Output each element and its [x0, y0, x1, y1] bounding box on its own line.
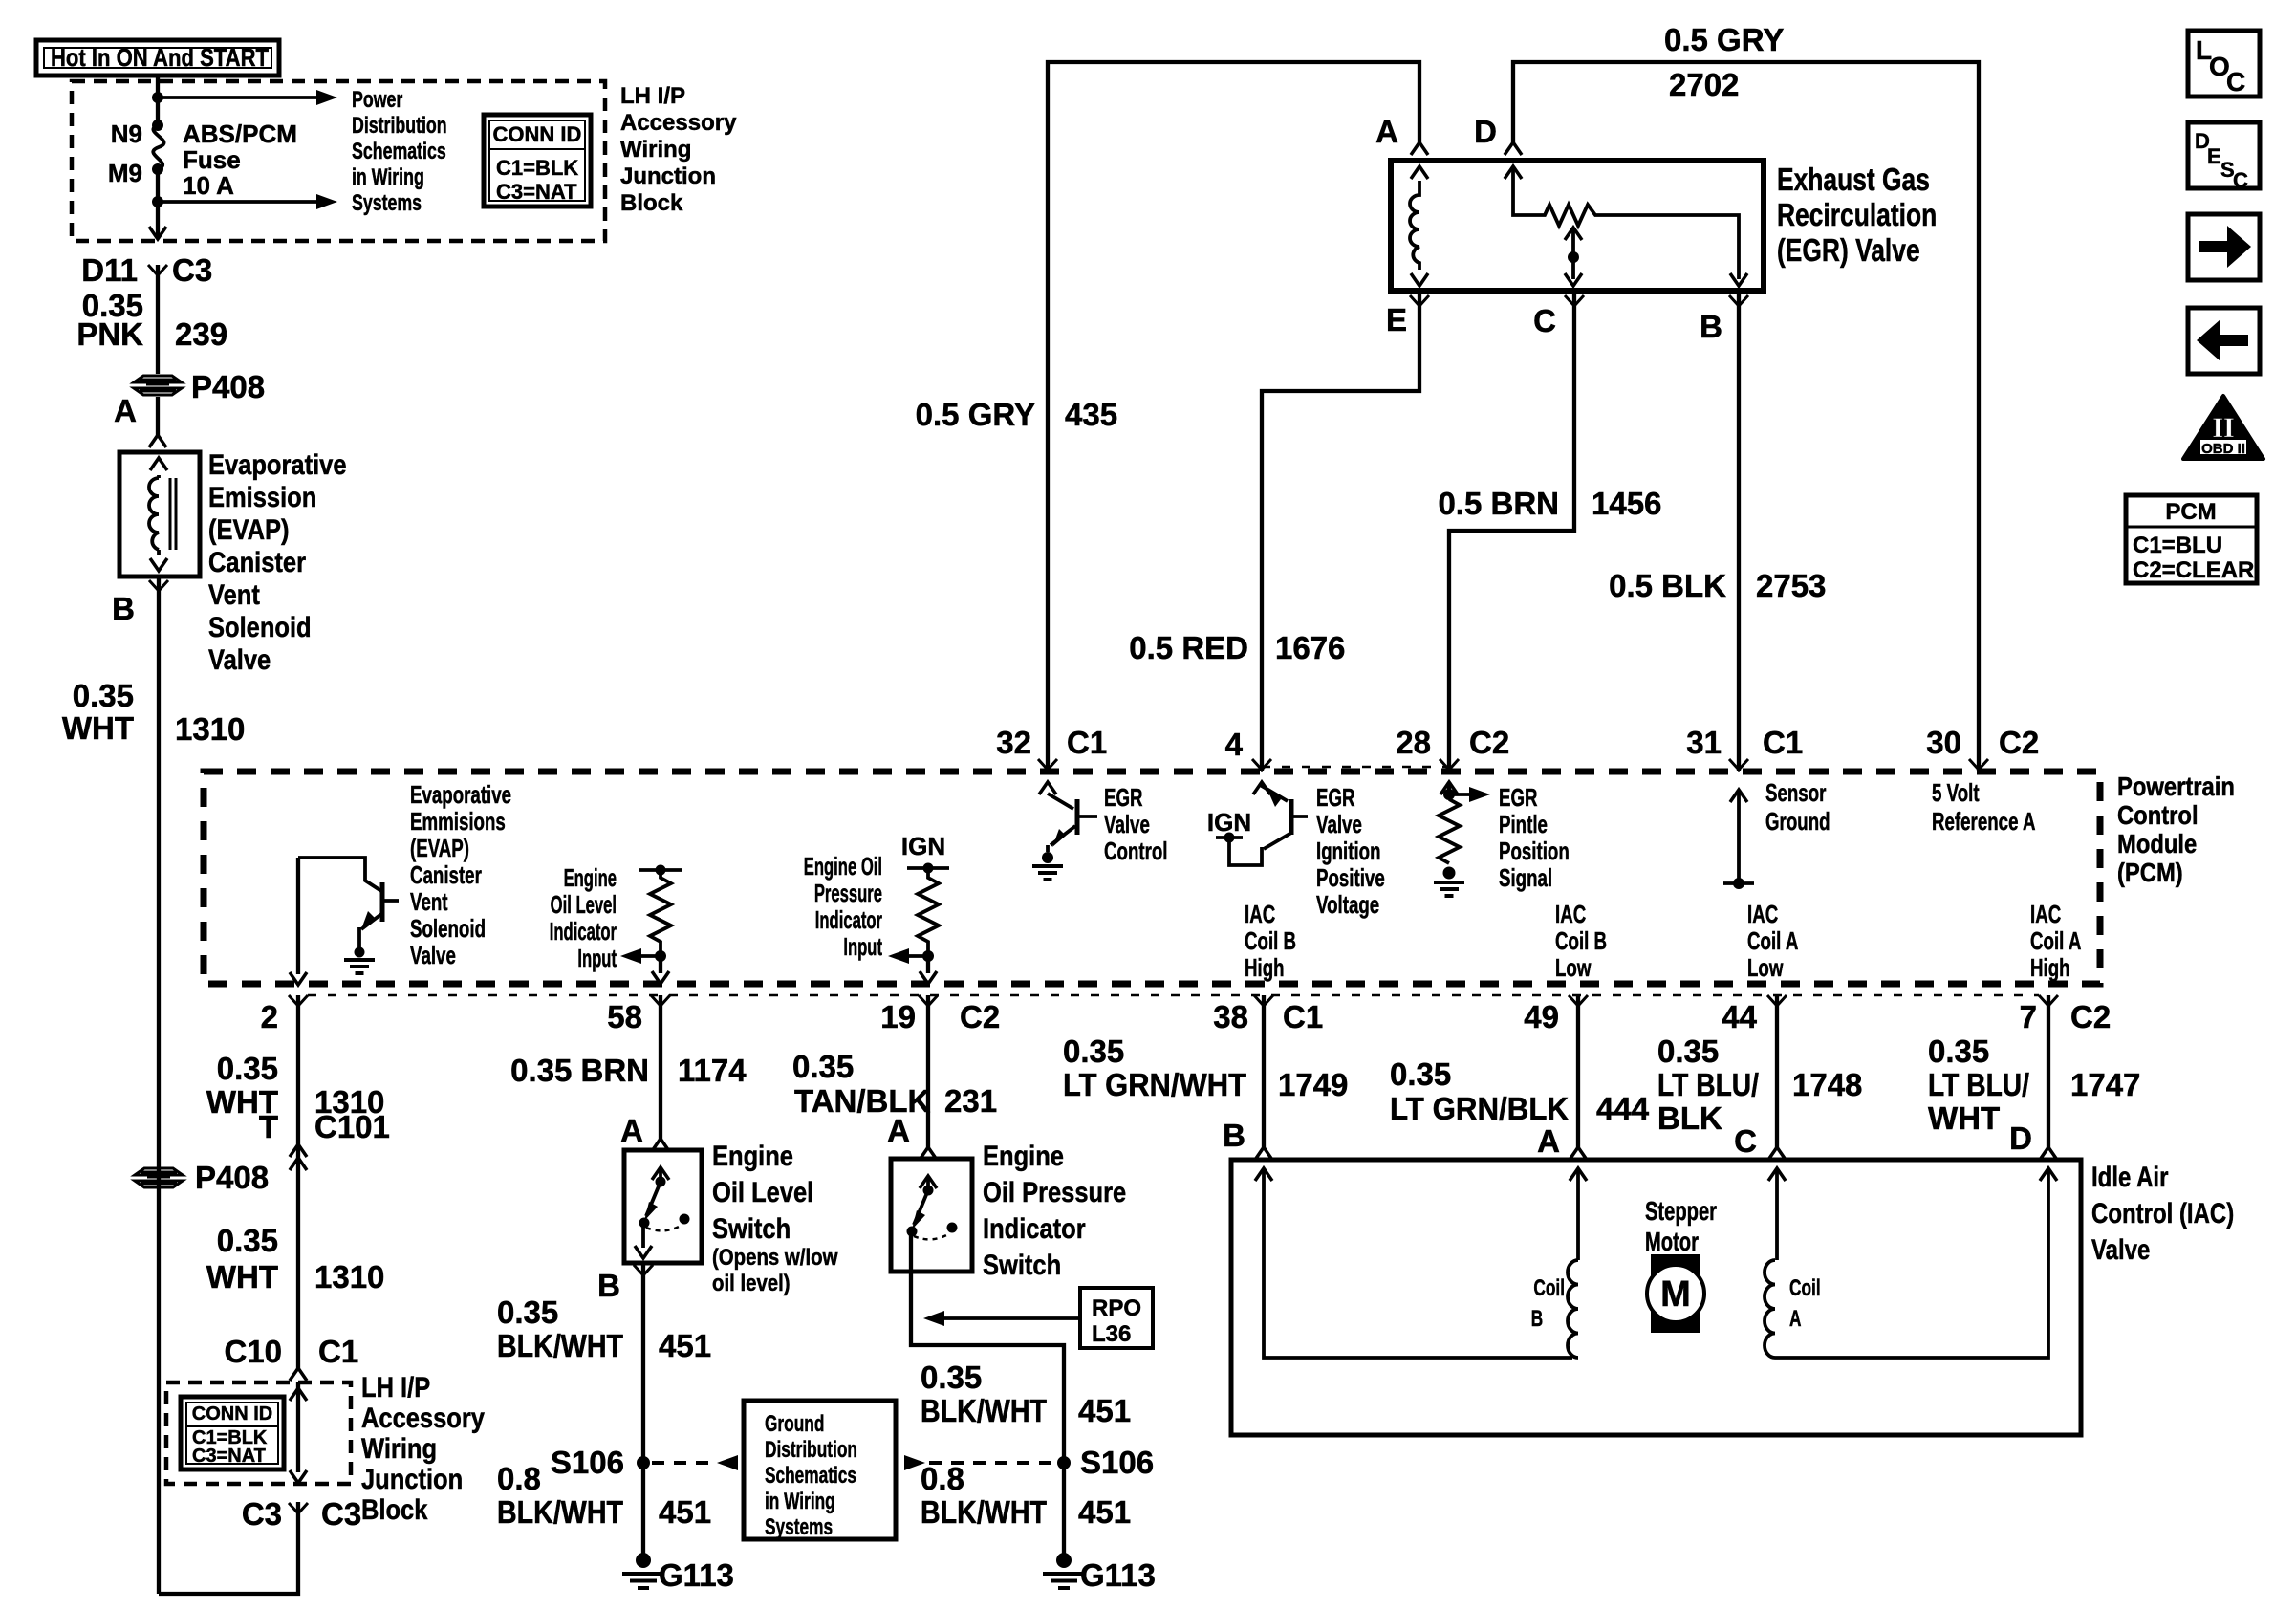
svg-text:Exhaust Gas: Exhaust Gas [1777, 163, 1930, 197]
svg-text:Valve: Valve [208, 643, 271, 675]
svg-text:LH I/P: LH I/P [361, 1371, 430, 1403]
wire 1310 pin 2 down to junction block [296, 995, 300, 1368]
svg-text:IAC: IAC [1555, 900, 1586, 928]
svg-text:A: A [1789, 1306, 1801, 1331]
pin 30 C2 [1926, 725, 2039, 770]
RPO L36 box [1080, 1288, 1153, 1348]
wire 451 oil pressure switch to S106 [911, 1231, 1064, 1556]
pin 44 [1722, 995, 1787, 1034]
label Powertrain Control Module (PCM) [2117, 771, 2235, 887]
svg-text:LT GRN/BLK: LT GRN/BLK [1390, 1091, 1569, 1126]
pin C IAC [1734, 1123, 1786, 1160]
svg-text:30: 30 [1926, 725, 1961, 760]
svg-text:2702: 2702 [1669, 67, 1739, 102]
svg-text:IAC: IAC [1747, 900, 1778, 928]
svg-text:G113: G113 [659, 1557, 734, 1593]
svg-text:D: D [1474, 114, 1497, 149]
svg-text:38: 38 [1213, 999, 1248, 1034]
svg-text:B: B [112, 591, 135, 626]
svg-text:E: E [1386, 302, 1407, 337]
svg-text:C2=CLEAR: C2=CLEAR [2133, 557, 2254, 583]
pin B IAC [1223, 1118, 1272, 1160]
label LH I/P Accessory Wiring Junction Block (bottom) [361, 1371, 485, 1525]
transistor EVAP vent solenoid driver [290, 858, 399, 985]
wire 1174 pin 58 to oil level switch A [659, 995, 662, 1139]
power feed box "Hot In ON And START" [36, 40, 279, 76]
svg-text:Emmisions: Emmisions [410, 807, 506, 836]
wire 435 pin32 to EGR A [1048, 62, 1419, 771]
svg-text:0.35: 0.35 [217, 1223, 278, 1258]
pin 32 C1 [996, 725, 1107, 770]
splice S106 (right) [1057, 1445, 1154, 1480]
svg-text:Junction: Junction [361, 1463, 463, 1494]
connector thin dashed line bottom [308, 994, 2039, 997]
svg-text:Control: Control [2117, 799, 2199, 830]
coil B [1531, 1260, 1578, 1358]
svg-text:TAN/BLK: TAN/BLK [794, 1083, 931, 1119]
svg-text:PCM: PCM [2165, 499, 2216, 525]
connector C3 C3 [242, 1496, 361, 1532]
node junction below fuse [152, 196, 163, 207]
pin D IAC [2009, 1120, 2057, 1160]
oil level switch contacts [635, 1167, 690, 1258]
svg-text:A: A [1537, 1123, 1560, 1159]
svg-text:Emission: Emission [208, 481, 316, 512]
transistor EGR valve ignition feed [1207, 782, 1308, 865]
fuse block dashed box [72, 81, 605, 241]
svg-text:C2: C2 [1469, 725, 1509, 760]
svg-text:Oil Level: Oil Level [551, 890, 617, 919]
svg-text:1747: 1747 [2070, 1067, 2140, 1102]
svg-text:(EGR) Valve: (EGR) Valve [1777, 233, 1920, 268]
svg-text:L36: L36 [1092, 1321, 1131, 1347]
svg-text:0.35: 0.35 [217, 1051, 278, 1086]
svg-text:B: B [1531, 1306, 1543, 1331]
svg-text:0.35: 0.35 [1390, 1056, 1451, 1092]
wire label 0.8 BLK/WHT 451 (left) [497, 1461, 711, 1530]
wire 451 oil level switch B to S106 [641, 1265, 645, 1556]
wire 1676 EGR E to pin 4 [1262, 292, 1419, 771]
svg-text:BLK/WHT: BLK/WHT [921, 1494, 1047, 1530]
svg-text:0.5 BLK: 0.5 BLK [1609, 568, 1726, 603]
svg-text:Fuse: Fuse [183, 145, 241, 174]
svg-text:Low: Low [1555, 953, 1592, 982]
svg-text:WHT: WHT [1928, 1100, 2000, 1136]
resistor engine oil level input [620, 865, 682, 985]
pin A IAC [1537, 1123, 1587, 1160]
svg-text:0.35: 0.35 [921, 1360, 982, 1395]
wire arrow to Power Distribution (top) [158, 90, 337, 105]
label Evaporative Emmisions (EVAP) Canister Vent Solenoid Valve [410, 780, 511, 969]
svg-text:7: 7 [2020, 999, 2037, 1034]
wire label 0.35 BLK/WHT 451 (left) [497, 1295, 711, 1363]
wire through junction block [290, 1382, 307, 1483]
wire label 0.35 WHT 1310 [62, 678, 246, 747]
svg-text:Valve: Valve [1316, 810, 1362, 838]
svg-text:BLK: BLK [1657, 1100, 1722, 1136]
svg-text:C3: C3 [242, 1496, 282, 1532]
svg-text:WHT: WHT [62, 710, 134, 746]
sensor ground symbol [1723, 790, 1754, 889]
label Engine Oil Pressure Indicator Switch [983, 1140, 1126, 1280]
svg-text:Input: Input [843, 932, 882, 961]
wire to P408 [156, 265, 160, 374]
svg-text:Solenoid: Solenoid [208, 611, 312, 642]
svg-text:Schematics: Schematics [765, 1463, 856, 1488]
svg-text:Vent: Vent [410, 887, 448, 916]
wire leaving fuse block down with arrowhead [149, 202, 166, 239]
label IAC Coil A Low [1747, 900, 1798, 982]
svg-text:A: A [887, 1113, 910, 1148]
svg-text:Reference A: Reference A [1932, 807, 2035, 836]
svg-text:S106: S106 [1080, 1445, 1154, 1480]
svg-text:G113: G113 [1080, 1557, 1156, 1593]
svg-text:Powertrain: Powertrain [2117, 771, 2235, 801]
pin 19 C2 [880, 995, 1000, 1034]
wire 1310 from EVAP B down left side [157, 577, 161, 1594]
wire label 0.35 LT BLU/BLK 1748 [1657, 1033, 1862, 1136]
wire 2702 EGR D to pin 30 [1513, 62, 1979, 771]
svg-text:0.35: 0.35 [497, 1295, 558, 1330]
svg-text:OBD II: OBD II [2201, 441, 2245, 457]
svg-text:0.5 GRY: 0.5 GRY [1664, 22, 1784, 57]
svg-text:C: C [1734, 1123, 1757, 1159]
IAC coil A return wire [1775, 1168, 2057, 1358]
svg-text:Canister: Canister [208, 546, 306, 577]
svg-text:Control: Control [1104, 837, 1168, 865]
pin D11/C3 chevron [148, 265, 167, 275]
wire label 0.5 BRN 1456 [1438, 486, 1661, 521]
svg-text:Oil Level: Oil Level [712, 1176, 813, 1207]
IAC coil B feed wire [1255, 1168, 1572, 1358]
svg-text:IGN: IGN [901, 832, 945, 860]
svg-text:1749: 1749 [1278, 1067, 1348, 1102]
svg-text:EGR: EGR [1104, 783, 1143, 812]
pin B oil level switch [597, 1265, 653, 1303]
svg-text:239: 239 [175, 316, 227, 352]
connector C101 T [259, 1109, 390, 1170]
icon DESC box [2188, 122, 2260, 192]
svg-text:451: 451 [1078, 1393, 1131, 1428]
wire label 0.35 BLK/WHT 451 (right) [921, 1360, 1131, 1428]
wire label 0.35 BRN 1174 [510, 1053, 747, 1088]
label LH I/P Accessory Wiring Junction Block (top) [620, 83, 737, 216]
svg-text:C3: C3 [321, 1496, 361, 1532]
svg-text:in Wiring: in Wiring [765, 1489, 835, 1513]
svg-text:Solenoid: Solenoid [410, 914, 486, 943]
PCM connector legend box [2126, 495, 2257, 583]
svg-text:32: 32 [996, 725, 1031, 760]
icon OBD II triangle [2183, 396, 2264, 459]
connector C10 C1 [224, 1334, 358, 1381]
ground G113 (left) [622, 1553, 734, 1593]
wire label 0.35 LT GRN/BLK 444 [1390, 1056, 1650, 1126]
wire label 0.35 TAN/BLK 231 [792, 1049, 997, 1119]
resistor engine oil pressure input with IGN rail [888, 832, 949, 984]
svg-text:0.5 RED: 0.5 RED [1129, 630, 1248, 665]
svg-text:Schematics: Schematics [352, 140, 446, 164]
wire 1749 pin 38 to IAC B [1262, 995, 1266, 1147]
svg-text:2753: 2753 [1756, 568, 1826, 603]
svg-text:High: High [2030, 953, 2070, 982]
engine oil pressure indicator switch box [891, 1159, 972, 1272]
svg-text:0.35: 0.35 [73, 678, 134, 713]
EGR pin A [1375, 114, 1428, 155]
EGR pin B [1700, 295, 1748, 344]
svg-text:C: C [1533, 303, 1556, 338]
svg-text:D11: D11 [81, 252, 138, 288]
transistor EGR valve control driver [1032, 782, 1097, 880]
svg-text:IAC: IAC [2030, 900, 2061, 928]
svg-text:(EVAP): (EVAP) [410, 834, 469, 862]
label Evaporative Emission (EVAP) Canister Vent Solenoid Valve [208, 448, 347, 675]
label IAC Coil A High [2030, 900, 2081, 982]
svg-text:44: 44 [1722, 999, 1757, 1034]
svg-text:58: 58 [607, 999, 642, 1034]
svg-text:Junction: Junction [620, 163, 716, 189]
svg-text:Pintle: Pintle [1499, 810, 1548, 838]
svg-text:Block: Block [620, 190, 683, 216]
svg-text:Vent: Vent [208, 578, 260, 610]
ground G113 (right) [1043, 1553, 1156, 1593]
svg-text:LT BLU/: LT BLU/ [1657, 1067, 1759, 1102]
svg-text:Stepper: Stepper [1645, 1197, 1717, 1227]
svg-text:T: T [259, 1109, 278, 1144]
pin 49 [1524, 995, 1588, 1034]
svg-text:Power: Power [352, 88, 402, 113]
svg-text:C2: C2 [2070, 999, 2111, 1034]
svg-text:S106: S106 [551, 1445, 624, 1480]
svg-text:Accessory: Accessory [620, 110, 737, 136]
svg-text:Ground: Ground [1765, 807, 1830, 836]
svg-text:Switch: Switch [983, 1249, 1061, 1280]
svg-text:Evaporative: Evaporative [208, 448, 347, 480]
junction block dashed box [166, 1382, 351, 1484]
svg-text:Voltage: Voltage [1316, 890, 1379, 919]
label EGR Valve Control [1104, 783, 1168, 865]
wire from Hot box into fuse block [156, 76, 160, 98]
label IAC Coil B Low [1555, 900, 1607, 982]
svg-text:CONN ID: CONN ID [192, 1403, 272, 1425]
svg-text:Positive: Positive [1316, 863, 1385, 892]
svg-text:Valve: Valve [2091, 1232, 2150, 1265]
svg-text:Valve: Valve [1104, 810, 1150, 838]
label EGR Pintle Position Signal [1499, 783, 1570, 892]
wire 1747 pin 7 to IAC D [2047, 995, 2050, 1147]
wire label 0.35 WHT 1310 (lower) [206, 1223, 385, 1295]
icon arrow left box [2188, 308, 2260, 374]
svg-text:1456: 1456 [1592, 486, 1661, 521]
wire label 0.5 GRY 435 [916, 397, 1117, 432]
svg-text:P408: P408 [195, 1160, 269, 1195]
svg-text:C3=NAT: C3=NAT [192, 1446, 266, 1467]
svg-text:B: B [597, 1268, 620, 1303]
wire arrow to Power Distribution (bottom) [158, 194, 337, 209]
svg-text:(PCM): (PCM) [2117, 857, 2183, 887]
svg-text:Engine: Engine [564, 863, 617, 892]
EGR pin E [1386, 295, 1429, 337]
svg-text:Switch: Switch [712, 1212, 791, 1244]
svg-text:31: 31 [1686, 725, 1722, 760]
svg-text:Position: Position [1499, 837, 1570, 865]
icon arrow right box [2188, 214, 2260, 280]
svg-text:RPO: RPO [1092, 1295, 1141, 1321]
wire label 0.35 LT BLU/WHT 1747 [1928, 1033, 2140, 1136]
IAC coil C wire entry [1768, 1168, 1786, 1260]
wire 1456 EGR C to pin 28 [1449, 292, 1574, 771]
svg-text:5 Volt: 5 Volt [1932, 778, 1980, 807]
svg-text:IAC: IAC [1245, 900, 1275, 928]
svg-text:0.35: 0.35 [1928, 1033, 1989, 1069]
svg-text:M9: M9 [108, 159, 142, 187]
label Engine Oil Level Indicator Input [550, 863, 617, 972]
EGR pin D [1474, 114, 1522, 155]
svg-text:Valve: Valve [410, 941, 456, 969]
svg-text:LH I/P: LH I/P [620, 83, 685, 109]
label Engine Oil Pressure Indicator Input [804, 852, 883, 961]
svg-text:Wiring: Wiring [361, 1432, 437, 1464]
pin B of EVAP valve [112, 580, 168, 626]
svg-text:Input: Input [577, 944, 617, 972]
pin 4 [1225, 727, 1271, 770]
wire 2753 EGR B to pin 31 [1737, 292, 1741, 771]
svg-text:1310: 1310 [314, 1259, 384, 1295]
svg-text:Engine: Engine [712, 1140, 793, 1171]
wire 1748 pin 44 to IAC C [1775, 995, 1779, 1147]
wire label 0.8 BLK/WHT 451 (right) [921, 1461, 1131, 1530]
pin 31 C1 [1686, 725, 1803, 770]
wire label 0.5 GRY 2702 [1664, 22, 1784, 102]
svg-text:0.8: 0.8 [497, 1461, 541, 1496]
svg-text:10 A: 10 A [183, 171, 234, 200]
pin 28 C2 [1396, 725, 1509, 770]
wire label 0.35 LT GRN/WHT 1749 [1063, 1033, 1348, 1102]
svg-text:C1: C1 [1763, 725, 1803, 760]
label IAC Coil B High [1245, 900, 1296, 982]
svg-text:C1: C1 [318, 1334, 358, 1369]
pin 2 [261, 995, 308, 1034]
svg-text:1310: 1310 [175, 711, 245, 747]
svg-text:Ground: Ground [765, 1411, 824, 1436]
svg-text:EGR: EGR [1499, 783, 1538, 812]
pin A oil level switch [620, 1113, 669, 1151]
svg-text:A: A [1375, 114, 1398, 149]
svg-text:C1: C1 [1067, 725, 1107, 760]
svg-text:0.35: 0.35 [792, 1049, 854, 1084]
svg-text:4: 4 [1225, 727, 1244, 762]
svg-text:28: 28 [1396, 725, 1431, 760]
svg-text:C101: C101 [314, 1109, 390, 1144]
CONN ID legend box (top) [484, 115, 591, 207]
svg-text:C1=BLU: C1=BLU [2133, 533, 2222, 558]
pin 7 C2 [2020, 995, 2112, 1034]
svg-text:C2: C2 [1999, 725, 2039, 760]
labels D11 C3 [81, 252, 212, 288]
svg-text:Distribution: Distribution [352, 114, 447, 139]
CONN ID legend box (bottom) [181, 1397, 284, 1469]
svg-text:Engine Oil: Engine Oil [804, 852, 882, 881]
wire junction block C3 to EVAP return [159, 1502, 298, 1594]
svg-text:Idle Air: Idle Air [2091, 1160, 2169, 1192]
svg-text:C: C [2226, 67, 2245, 97]
EGR pin C [1533, 295, 1584, 338]
label Engine Oil Level Switch [712, 1140, 838, 1295]
svg-text:435: 435 [1065, 397, 1117, 432]
svg-text:Oil Pressure: Oil Pressure [983, 1176, 1126, 1207]
label 5 Volt Reference A [1932, 778, 2035, 836]
svg-text:49: 49 [1524, 999, 1559, 1034]
svg-text:1748: 1748 [1792, 1067, 1862, 1102]
svg-text:451: 451 [659, 1494, 711, 1530]
stepper motor [1645, 1197, 1717, 1333]
svg-text:in Wiring: in Wiring [352, 165, 424, 190]
svg-text:Recirculation: Recirculation [1777, 198, 1937, 232]
svg-text:C2: C2 [960, 999, 1000, 1034]
EGR valve box [1391, 161, 1764, 291]
svg-text:C10: C10 [224, 1334, 282, 1369]
svg-text:451: 451 [659, 1328, 711, 1363]
svg-text:Coil A: Coil A [2030, 926, 2081, 955]
svg-text:C1: C1 [1283, 999, 1323, 1034]
svg-text:M: M [1660, 1274, 1691, 1315]
svg-text:BLK/WHT: BLK/WHT [497, 1328, 623, 1363]
svg-text:Indicator: Indicator [983, 1212, 1086, 1244]
wire label 0.5 RED 1676 [1129, 630, 1345, 665]
EVAP canister vent solenoid valve box [119, 452, 200, 577]
svg-text:EGR: EGR [1316, 783, 1355, 812]
svg-text:BLK/WHT: BLK/WHT [921, 1393, 1047, 1428]
dashed splice wire to ground distribution [652, 1455, 738, 1470]
svg-text:Wiring: Wiring [620, 137, 691, 163]
resistor EGR pintle position sense [1434, 782, 1490, 896]
svg-text:Hot In ON And START: Hot In ON And START [51, 43, 269, 72]
svg-text:C: C [2233, 168, 2248, 192]
IAC coil A wire entry [1570, 1168, 1587, 1260]
wire label 0.5 BLK 2753 [1609, 568, 1826, 603]
svg-text:Evaporative: Evaporative [410, 780, 511, 809]
pin A of EVAP valve [114, 393, 166, 447]
svg-text:A: A [620, 1113, 643, 1148]
svg-text:P408: P408 [191, 369, 265, 404]
label Sensor Ground [1765, 778, 1830, 836]
svg-text:Module: Module [2117, 828, 2197, 859]
svg-text:Coil B: Coil B [1245, 926, 1296, 955]
svg-text:Coil: Coil [1533, 1275, 1565, 1300]
svg-text:Canister: Canister [410, 860, 482, 889]
svg-text:Systems: Systems [765, 1514, 833, 1539]
label Power Distribution Schematics in Wiring Systems [352, 88, 447, 216]
svg-text:0.35 BRN: 0.35 BRN [510, 1053, 649, 1088]
EGR pintle potentiometer [1505, 166, 1747, 286]
pin A oil pressure switch [887, 1113, 937, 1160]
svg-text:BLK/WHT: BLK/WHT [497, 1494, 623, 1530]
svg-text:0.35: 0.35 [1657, 1033, 1719, 1069]
wire label 0.35 WHT 1310 (upper) [206, 1051, 385, 1120]
svg-text:Systems: Systems [352, 191, 422, 216]
svg-text:ABS/PCM: ABS/PCM [183, 120, 297, 148]
node junction above fuse [152, 92, 163, 103]
PCM dashed box [204, 772, 2100, 984]
svg-text:2: 2 [261, 999, 278, 1034]
arrow RPO to switch wire [923, 1311, 1080, 1326]
svg-text:High: High [1245, 953, 1285, 982]
splice S106 (left) [551, 1445, 650, 1480]
fuse ABS/PCM 10 A [108, 98, 297, 202]
svg-text:C3=NAT: C3=NAT [496, 180, 577, 204]
svg-text:0.8: 0.8 [921, 1461, 964, 1496]
svg-text:B: B [1223, 1118, 1245, 1153]
svg-text:Low: Low [1747, 953, 1784, 982]
